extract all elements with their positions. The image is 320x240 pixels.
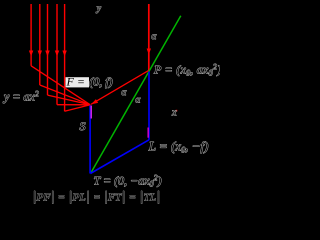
svg-text:L = (x0, −f): L = (x0, −f) <box>148 139 209 155</box>
svg-text:y: y <box>96 4 102 14</box>
svg-text:α: α <box>136 95 141 105</box>
svg-text:α: α <box>152 31 157 41</box>
svg-text:x: x <box>171 108 177 119</box>
svg-text:y = ax2: y = ax2 <box>3 90 39 104</box>
svg-text:F =: F = <box>66 75 85 89</box>
svg-text:S: S <box>80 119 86 133</box>
svg-text:α: α <box>122 87 127 97</box>
svg-text:|PF| = |PL| = |FT| = |TL|: |PF| = |PL| = |FT| = |TL| <box>33 189 161 204</box>
svg-text:(0, f): (0, f) <box>89 75 112 89</box>
